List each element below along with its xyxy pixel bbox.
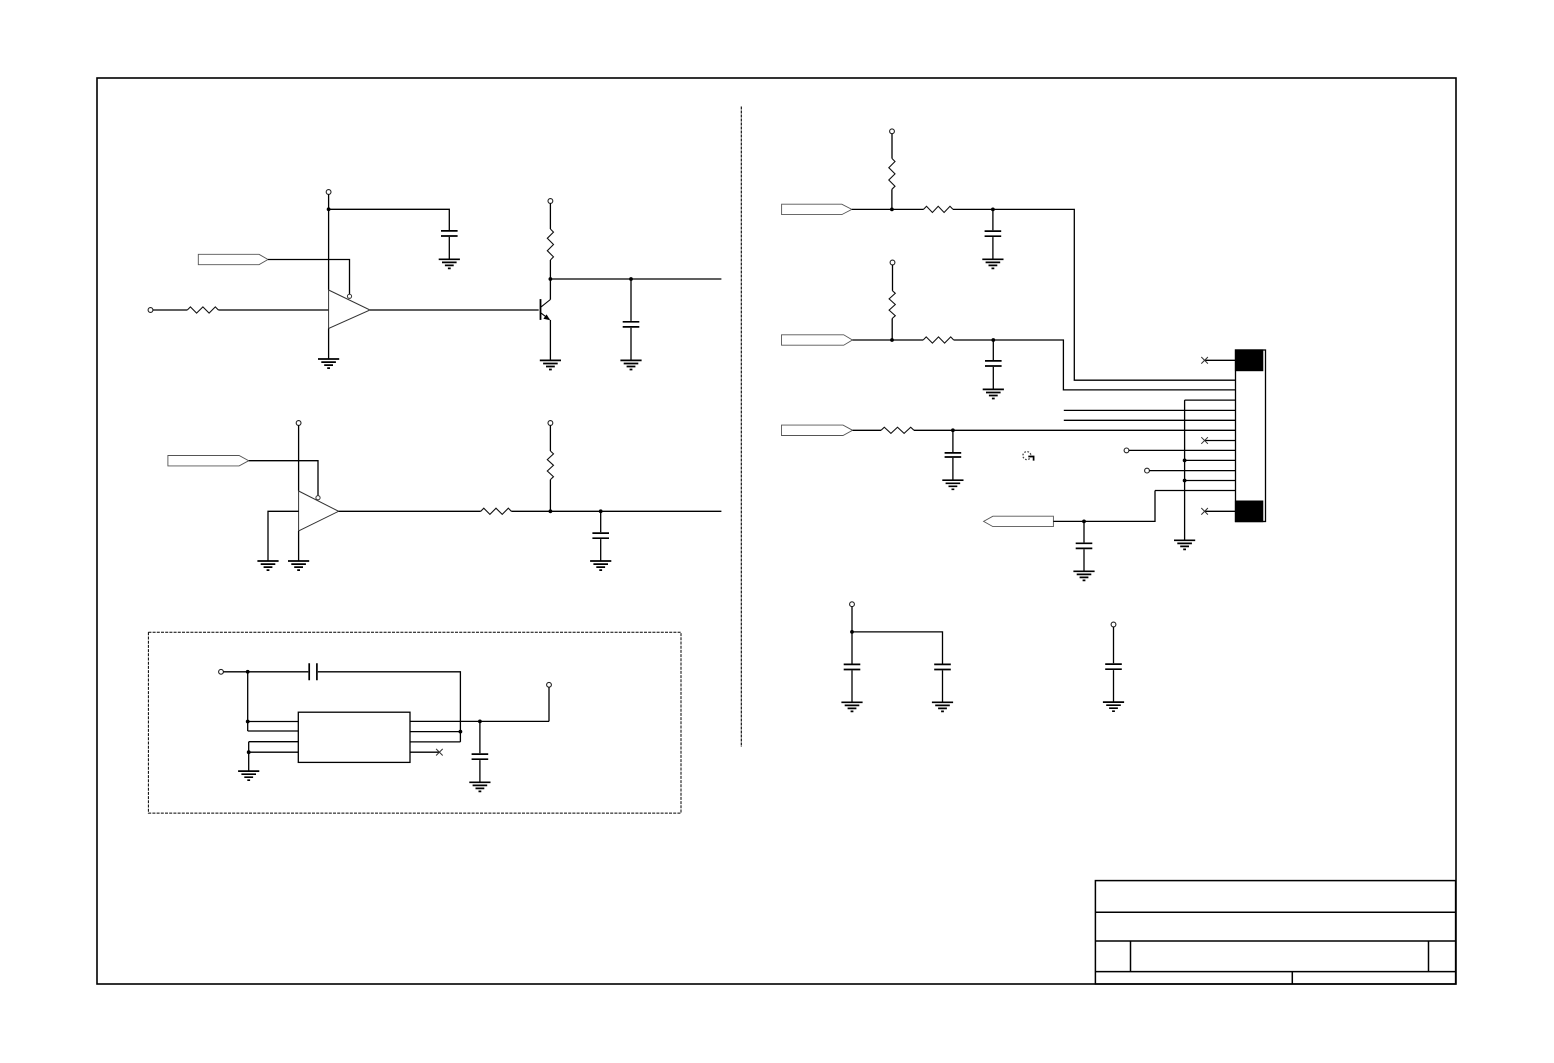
wire J1 pin 7 (nc) xyxy=(1205,440,1236,442)
ground xyxy=(1103,702,1124,711)
wire xyxy=(318,672,461,742)
wire SIG2 to J1 xyxy=(954,340,1236,390)
wire xyxy=(630,279,632,321)
ground xyxy=(238,771,259,780)
connector J1 body xyxy=(1236,350,1266,522)
terminal P4 (op-amp U2 V+ supply) xyxy=(296,421,301,426)
wire xyxy=(852,632,943,664)
ground xyxy=(439,259,460,268)
node junction xyxy=(1082,520,1086,524)
resistor R1 xyxy=(187,307,218,313)
wire J1 pin 4 xyxy=(1064,409,1236,411)
terminal P10 xyxy=(1124,448,1129,453)
wire xyxy=(892,265,894,291)
ground xyxy=(932,702,953,711)
node U3 pin1 junction xyxy=(246,720,250,724)
shield hook symbol xyxy=(1023,452,1034,461)
wire SIG3 to J1 xyxy=(914,429,1236,431)
capacitor C11 xyxy=(934,664,951,669)
wire xyxy=(992,237,994,259)
transistor Q1 xyxy=(541,299,551,320)
wire U3 left pins 1-2 tie xyxy=(248,672,299,731)
resistor R4 xyxy=(547,451,553,480)
wire xyxy=(1113,670,1115,702)
net flag SIG4 (left-pointing) xyxy=(984,516,1054,526)
wire U2 V- xyxy=(298,531,300,561)
wire J1 pin 12 xyxy=(1155,490,1236,492)
wire xyxy=(1083,521,1085,542)
no-connect X xyxy=(1201,437,1208,444)
wire J1 pin 3 xyxy=(1185,399,1236,401)
net flag IN1 xyxy=(198,254,268,264)
ground xyxy=(620,360,641,369)
connector J1 mounting pad (top) xyxy=(1235,349,1263,371)
wire xyxy=(942,670,944,702)
title block xyxy=(1095,881,1455,984)
ground xyxy=(1073,571,1094,580)
wire xyxy=(328,194,330,290)
wire xyxy=(891,134,893,159)
terminal P5 (pull-up supply) xyxy=(548,421,553,426)
wire U3 output pin xyxy=(410,720,549,722)
capacitor C1 xyxy=(441,231,458,236)
node junction xyxy=(1183,459,1187,463)
wire xyxy=(1113,627,1115,663)
wire SIG1 to J1 xyxy=(953,209,1236,380)
wire xyxy=(548,687,550,721)
wire J1 pin 8 xyxy=(1129,449,1236,451)
op-amp U2 xyxy=(299,491,339,531)
wire U3 pin R4 stub xyxy=(410,751,439,753)
node junction xyxy=(991,208,995,212)
wire J1 shield pin (bottom) xyxy=(1205,510,1236,512)
wire xyxy=(891,319,893,341)
net flag SIG2 xyxy=(782,335,853,345)
wire J1 pin 9 xyxy=(1185,459,1236,461)
wire xyxy=(630,328,632,361)
node junction xyxy=(629,277,633,281)
node junction xyxy=(478,720,482,724)
wire xyxy=(952,458,954,480)
wire xyxy=(298,425,300,491)
no-connect X xyxy=(1201,357,1208,364)
terminal P3 (Q1 collector supply) xyxy=(548,199,553,204)
capacitor C10 xyxy=(844,664,861,669)
resistor R8 xyxy=(923,337,954,343)
terminal P13 (supply) xyxy=(1111,622,1116,627)
resistor R5 xyxy=(889,158,895,189)
op-amp U1 enable bubble xyxy=(347,294,351,298)
wire J1 shield pin (top) xyxy=(1205,359,1236,361)
wire U2 output xyxy=(339,510,481,512)
terminal P2 (U1 input) xyxy=(148,308,153,313)
wire xyxy=(851,670,853,702)
wire OUT2 net xyxy=(511,510,721,512)
wire xyxy=(479,760,481,782)
wire xyxy=(992,209,994,230)
ground xyxy=(257,561,278,570)
wire xyxy=(549,203,551,229)
wire J1 pin 5 xyxy=(1064,419,1236,421)
wire xyxy=(853,429,881,431)
wire xyxy=(549,480,551,512)
node junction xyxy=(599,509,603,513)
wire xyxy=(448,237,450,259)
node U3 pin4 junction xyxy=(247,750,251,754)
no-connect X xyxy=(436,749,443,756)
wire xyxy=(329,209,450,230)
node junction xyxy=(549,509,553,513)
wire U3 pin R2 xyxy=(410,731,460,733)
ground xyxy=(1174,540,1195,549)
capacitor C9 xyxy=(1076,543,1093,548)
wire xyxy=(851,607,853,632)
no-connect X xyxy=(1201,508,1208,515)
node junction xyxy=(246,670,250,674)
node junction xyxy=(890,208,894,212)
node junction xyxy=(890,338,894,342)
net flag SIG1 xyxy=(782,204,852,214)
wire xyxy=(218,309,328,311)
ground xyxy=(942,480,963,489)
node junction xyxy=(459,730,463,734)
capacitor C6 xyxy=(985,231,1002,236)
wire Q1 collector xyxy=(549,279,551,300)
wire xyxy=(992,367,994,390)
wire xyxy=(891,189,893,209)
terminal P7 (U3 output) xyxy=(547,682,552,687)
capacitor C2 xyxy=(623,322,640,327)
terminal P11 xyxy=(1145,468,1150,473)
wire OUT1 net xyxy=(550,278,721,280)
net flag IN2 xyxy=(168,456,249,466)
capacitor C5 xyxy=(472,754,489,759)
wire xyxy=(851,632,853,664)
ground xyxy=(540,360,561,369)
ground xyxy=(318,359,339,368)
wire xyxy=(549,260,551,279)
wire xyxy=(600,511,602,532)
terminal P6 (U3 input) xyxy=(219,669,224,674)
capacitor C7 xyxy=(985,361,1002,366)
wire xyxy=(549,425,551,451)
wire U3 pin R3 xyxy=(410,741,460,743)
wire xyxy=(153,309,187,311)
wire xyxy=(952,430,954,452)
schematic sheet border xyxy=(97,78,1456,984)
wire xyxy=(1083,549,1085,571)
ground xyxy=(590,561,611,570)
terminal P9 (pull-up supply) xyxy=(890,260,895,265)
resistor R6 xyxy=(924,206,954,212)
wire U2 inverting input xyxy=(268,511,299,561)
IC U3 xyxy=(298,712,410,762)
ground xyxy=(841,702,862,711)
wire SIG4 to J1 xyxy=(1053,491,1155,522)
ground xyxy=(982,259,1003,268)
wire xyxy=(852,208,924,210)
resistor R7 xyxy=(889,291,895,319)
terminal P8 (pull-up supply) xyxy=(890,129,895,134)
node junction xyxy=(951,428,955,432)
wire xyxy=(852,339,923,341)
node V+ junction xyxy=(327,207,331,211)
wire GND bus xyxy=(1184,400,1186,540)
ground xyxy=(469,782,490,791)
wire U1 output to Q1 base xyxy=(370,309,539,311)
wire xyxy=(328,329,330,360)
node Q1 collector junction xyxy=(549,277,553,281)
wire J1 pin 11 xyxy=(1185,480,1236,482)
wire xyxy=(249,461,318,496)
net flag SIG3 xyxy=(782,425,853,435)
section divider (dashed) xyxy=(740,107,742,748)
capacitor C3 xyxy=(592,533,609,538)
resistor R9 xyxy=(881,427,914,433)
op-amp U2 enable bubble xyxy=(316,496,320,500)
wire xyxy=(479,721,481,753)
op-amp U1 xyxy=(329,290,370,329)
wire xyxy=(600,539,602,561)
capacitor C8 xyxy=(945,453,962,457)
wire U3 left pins 3-4 tie xyxy=(249,742,299,771)
resistor R3 xyxy=(481,508,512,514)
capacitor C4 (series) xyxy=(309,663,317,680)
ground xyxy=(288,561,309,570)
terminal P1 (op-amp U1 V+ supply) xyxy=(326,190,331,195)
node junction xyxy=(850,630,854,634)
wire Q1 emitter xyxy=(549,320,551,361)
wire xyxy=(992,340,994,360)
capacitor C12 xyxy=(1105,664,1122,669)
node junction xyxy=(991,338,995,342)
node junction xyxy=(1183,479,1187,483)
optional-section dashed box xyxy=(148,632,681,813)
wire J1 pin 10 xyxy=(1149,470,1235,472)
ground xyxy=(983,389,1004,398)
connector J1 mounting pad (bottom) xyxy=(1235,501,1263,523)
wire xyxy=(268,260,350,295)
wire xyxy=(223,671,308,673)
resistor R2 xyxy=(547,229,553,260)
terminal P12 (supply) xyxy=(850,602,855,607)
